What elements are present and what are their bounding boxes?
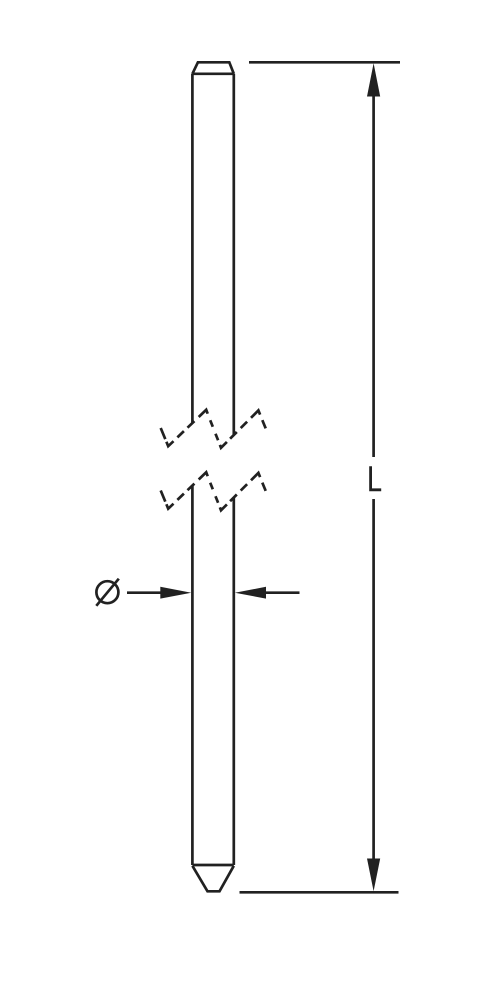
pin body lower-right side wire [232,497,235,865]
pin body lower-left side wire [191,485,194,865]
break line upper zigzag (dashed) [161,410,266,448]
diameter arrowhead right-pointing [160,587,191,599]
pin chamfer base line [192,72,233,75]
dimension line L lower segment [372,499,375,861]
dimension arrowhead down [367,859,380,892]
diameter leader right line [265,591,300,594]
pin body upper-right side wire [232,74,235,435]
diameter arrowhead left-pointing [235,587,266,599]
label L [371,466,382,490]
break line lower zigzag (dashed) [161,472,266,510]
pin body upper-left side wire [191,74,194,423]
pin top chamfer [192,62,233,74]
bottom extension line [240,891,399,894]
diameter symbol slash [96,579,119,606]
pin tip point [192,866,233,892]
dimension line L upper segment [372,94,375,457]
pin tip shoulder line [192,864,233,867]
dimension arrowhead up [367,63,380,96]
diameter symbol circle [96,581,118,603]
diameter leader left line [127,591,163,594]
top extension line [249,61,400,64]
